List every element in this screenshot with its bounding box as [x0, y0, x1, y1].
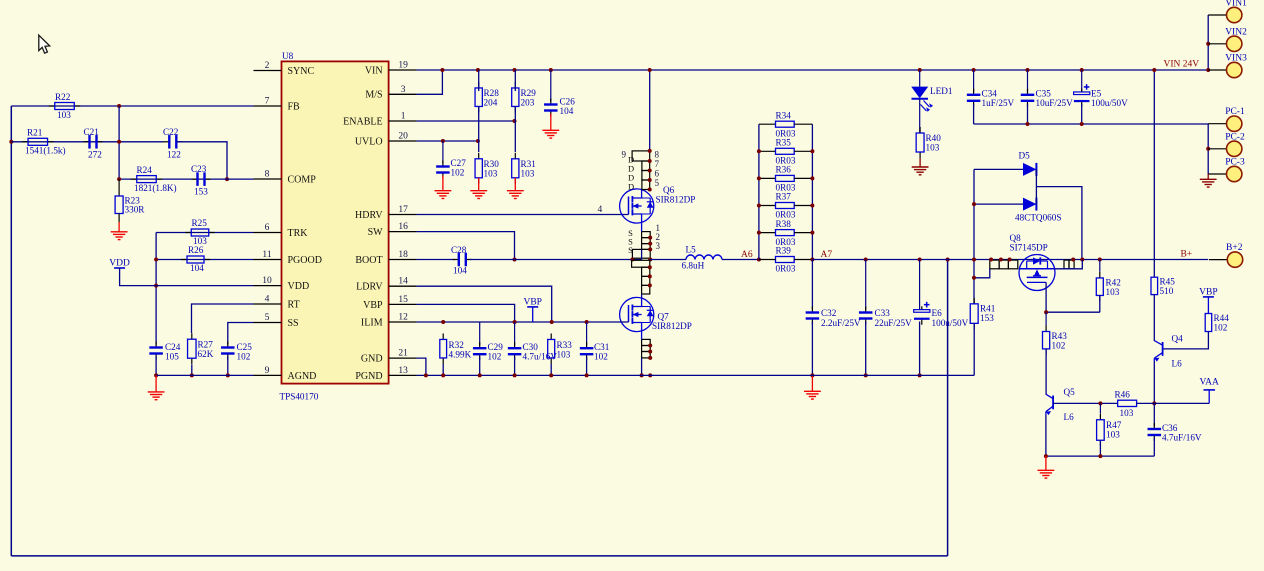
svg-text:TPS40170: TPS40170: [280, 392, 319, 402]
svg-text:104: 104: [560, 106, 574, 116]
capacitor C36: [1153, 423, 1155, 429]
svg-text:R31: R31: [521, 159, 537, 169]
node junction rail PGOOD: [154, 258, 158, 262]
wire R28 to R30 column: [478, 107, 480, 153]
capacitor C28: [453, 259, 459, 261]
svg-text:4.99K: 4.99K: [449, 350, 472, 360]
node junction D5 anodes: [972, 202, 976, 206]
svg-text:2.2uF/25V: 2.2uF/25V: [821, 318, 861, 328]
svg-text:19: 19: [398, 61, 408, 71]
capacitor C35: [1027, 70, 1029, 92]
capacitor C34: [973, 70, 975, 92]
svg-text:9: 9: [265, 366, 270, 376]
pin 16 SW of U8: [389, 231, 417, 233]
svg-text:122: 122: [167, 150, 181, 160]
pin 11 PGOOD of U8: [254, 259, 282, 261]
ground below R30: [478, 178, 480, 191]
node junction PGND R33: [549, 373, 553, 377]
wire Q7 source to PGND: [641, 332, 643, 340]
wire analog ground rail: [1046, 455, 1154, 457]
wire VIN rail: [417, 69, 1209, 71]
svg-text:R35: R35: [776, 138, 792, 148]
svg-text:7: 7: [265, 97, 270, 107]
pin 12 ILIM of U8: [389, 321, 417, 323]
svg-text:R29: R29: [521, 88, 537, 98]
node junction ILIM VBP C30: [513, 320, 517, 324]
wire ILIM row to Q7 gate: [417, 321, 629, 323]
node junction FB divider: [117, 104, 121, 108]
svg-text:PC-3: PC-3: [1225, 158, 1245, 168]
svg-text:R39: R39: [776, 246, 792, 256]
Q6 source pad 3: [642, 244, 651, 250]
resistor R35 shunt 0R03: [759, 150, 776, 152]
node junction R38 rails: [757, 231, 761, 235]
wire Q8 gate down: [1045, 282, 1047, 312]
resistor R38 shunt 0R03: [759, 232, 776, 234]
svg-text:PGND: PGND: [355, 371, 382, 382]
svg-text:6: 6: [655, 169, 660, 179]
svg-text:AGND: AGND: [288, 371, 317, 382]
wire LDRV drop: [417, 286, 552, 322]
node junction PGND C32: [810, 373, 814, 377]
wire AGND row: [156, 374, 253, 376]
svg-text:SIR812DP: SIR812DP: [652, 321, 692, 331]
wire R29 to R31 column: [514, 107, 516, 153]
svg-text:5: 5: [265, 313, 270, 323]
svg-text:4.7u/16V: 4.7u/16V: [523, 352, 558, 362]
transistor Q5: [1052, 396, 1054, 410]
svg-text:R25: R25: [192, 218, 208, 228]
svg-text:R42: R42: [1106, 278, 1122, 288]
Q6 drain pad 5: [642, 180, 650, 190]
wire D5 anode vertical: [973, 169, 975, 304]
wire E5 to cap rail: [1081, 104, 1083, 124]
node junction ILIM R32: [441, 320, 445, 324]
svg-text:1uF/25V: 1uF/25V: [982, 98, 1015, 108]
node junction PGND C30: [513, 373, 517, 377]
Q7 source pad 3: [642, 352, 651, 358]
wire M/S to VIN: [417, 70, 443, 94]
svg-text:4.7uF/16V: 4.7uF/16V: [1162, 433, 1202, 443]
svg-text:D: D: [628, 182, 634, 192]
svg-text:2: 2: [265, 61, 270, 71]
wire Q8 left pad link: [974, 269, 990, 278]
wire PC connector rail: [1207, 124, 1209, 174]
wire Q7 drain tab: [632, 260, 650, 267]
capacitor C29: [479, 322, 481, 345]
wire feedback loop right vertical: [947, 260, 949, 556]
wire GND pin21 drop: [417, 358, 426, 375]
wire D5 cathode to Q8 source: [1036, 187, 1082, 260]
resistor R37 shunt 0R03: [759, 205, 776, 207]
svg-text:C22: C22: [163, 127, 179, 137]
svg-text:VIN1: VIN1: [1225, 0, 1247, 9]
resistor R26: [181, 259, 187, 261]
svg-text:M/S: M/S: [365, 90, 382, 101]
ground below PC-3 dark: [1207, 174, 1209, 179]
pin 7 FB of U8: [254, 105, 282, 107]
svg-text:VIN2: VIN2: [1225, 27, 1247, 37]
svg-text:R30: R30: [484, 159, 500, 169]
Q6 source junction dots: [648, 236, 652, 240]
svg-text:Q7: Q7: [658, 312, 670, 322]
node junction C35 VIN: [1026, 68, 1030, 72]
svg-text:E5: E5: [1091, 89, 1102, 99]
svg-text:SW: SW: [368, 227, 384, 238]
svg-text:PGOOD: PGOOD: [288, 255, 322, 266]
svg-text:R21: R21: [27, 128, 43, 138]
svg-text:L5: L5: [686, 244, 697, 254]
capacitor C25: [227, 342, 229, 348]
svg-text:102: 102: [1052, 341, 1066, 351]
wire Q7 drain pads to symbol: [641, 294, 643, 298]
wire VIN connector rail: [1207, 15, 1209, 70]
wire FB row: [11, 105, 253, 107]
resistor R21: [22, 141, 28, 143]
pin 14 LDRV of U8: [389, 285, 417, 287]
wire C34 to cap rail: [973, 104, 975, 124]
svg-text:VIN3: VIN3: [1225, 54, 1247, 64]
wire C25 to AGND: [227, 357, 229, 376]
node junction VAA row R45 column: [1152, 401, 1156, 405]
wire UVLO row: [417, 140, 478, 142]
node junction M/S VIN: [440, 68, 444, 72]
svg-text:GND: GND: [361, 354, 383, 365]
connector PC-1: [1208, 123, 1226, 125]
svg-text:R47: R47: [1106, 420, 1122, 430]
svg-text:6: 6: [265, 223, 270, 233]
node junction PGND pin21: [424, 373, 428, 377]
node junction C33 rail: [864, 258, 868, 262]
wire R33 to PGND: [550, 364, 552, 375]
svg-text:14: 14: [398, 277, 408, 287]
diode D5 top half: [974, 168, 1023, 170]
svg-text:VBP: VBP: [1199, 287, 1217, 297]
node junction R28 VIN: [476, 68, 480, 72]
wire Q8 right pad link: [1055, 260, 1082, 269]
wire R45 to Q4 collector: [1153, 295, 1155, 341]
svg-text:SS: SS: [288, 318, 299, 329]
node junction gate R43: [1044, 310, 1048, 314]
wire shunt left rail: [758, 124, 760, 259]
node junction ground rail Q5: [1044, 454, 1048, 458]
wire output rail A7 to B+2: [812, 259, 1208, 261]
wire R32 to PGND: [442, 364, 444, 375]
wire C30 to PGND: [514, 357, 516, 375]
svg-text:204: 204: [484, 98, 498, 108]
pin 2 SYNC of U8: [254, 70, 282, 72]
capacitor C30: [514, 322, 516, 345]
svg-text:VBP: VBP: [363, 300, 383, 311]
pin 9 AGND of U8: [254, 374, 282, 376]
svg-text:7: 7: [655, 159, 660, 169]
resistor R22: [49, 105, 55, 107]
capacitor E5 electrolytic: [1081, 70, 1083, 92]
wire C22 to COMP corner: [176, 142, 227, 179]
resistor R29: [514, 82, 516, 88]
transistor Q8 SI7145DP mosfet symbol: [1019, 255, 1055, 291]
svg-text:A7: A7: [821, 250, 833, 260]
svg-text:1: 1: [401, 112, 406, 122]
svg-text:RT: RT: [288, 299, 300, 310]
svg-text:0R03: 0R03: [776, 264, 796, 274]
node junction rail VDD: [154, 284, 158, 288]
wire feedback loop left vertical: [10, 106, 12, 556]
node junction PGND Q7: [648, 373, 652, 377]
svg-text:102: 102: [594, 352, 608, 362]
pin 6 TRK of U8: [254, 232, 282, 234]
svg-text:C27: C27: [451, 158, 467, 168]
svg-text:103: 103: [484, 169, 498, 179]
svg-text:C35: C35: [1036, 89, 1052, 99]
svg-text:510: 510: [1160, 286, 1174, 296]
wire ENABLE row: [417, 120, 515, 122]
svg-text:R46: R46: [1115, 390, 1131, 400]
node junction AGND C24: [154, 373, 158, 377]
resistor R41: [973, 303, 975, 306]
svg-text:102: 102: [237, 352, 251, 362]
svg-text:100u/50V: 100u/50V: [1091, 98, 1128, 108]
pin 17 HDRV of U8: [389, 214, 417, 216]
node junction PC-2: [1206, 147, 1210, 151]
Q6 source pad 1: [642, 232, 651, 238]
svg-text:R40: R40: [926, 133, 942, 143]
resistor R34 shunt 0R03: [759, 123, 776, 125]
capacitor C33: [865, 260, 867, 310]
node junction VIN3: [1206, 68, 1210, 72]
resistor R25: [185, 232, 191, 234]
svg-text:UVLO: UVLO: [355, 136, 383, 147]
svg-text:VDD: VDD: [288, 281, 310, 292]
wire R42 to gate node: [1099, 295, 1101, 312]
svg-text:1541(1.5k): 1541(1.5k): [25, 146, 66, 156]
ground below R31: [514, 178, 516, 191]
Q6 drain pad 7: [642, 161, 650, 171]
ground below R40 dark: [919, 158, 921, 167]
resistor R33: [550, 333, 552, 339]
svg-text:VIN: VIN: [365, 65, 383, 76]
svg-text:12: 12: [398, 313, 408, 323]
connector PC-2: [1208, 148, 1226, 150]
resistor R30: [478, 153, 480, 159]
svg-text:R38: R38: [776, 219, 792, 229]
node junction feedback at main rail: [946, 258, 950, 262]
resistor R42: [1099, 260, 1101, 272]
svg-text:C29: C29: [488, 342, 504, 352]
svg-text:C30: C30: [523, 342, 539, 352]
Q6 source pad 2: [642, 238, 651, 244]
wire R29 column upper: [514, 70, 516, 91]
connector PC-3: [1208, 173, 1226, 175]
wire VDD port to rail: [120, 268, 254, 286]
svg-text:R22: R22: [55, 92, 71, 102]
pin 21 GND of U8: [389, 357, 417, 359]
wire shunt right rail: [811, 124, 813, 259]
ground below C27: [442, 176, 444, 191]
svg-text:102: 102: [1214, 323, 1228, 333]
svg-text:C31: C31: [594, 342, 610, 352]
svg-text:62K: 62K: [198, 349, 214, 359]
wire Q6 drain pads to symbol: [641, 189, 643, 191]
node junction R21 row at frame: [9, 140, 13, 144]
connector VIN3: [1208, 69, 1226, 71]
wire C31 to PGND: [586, 357, 588, 375]
wire R21 C21 C22 row: [11, 141, 163, 143]
wire C35 to cap rail: [1027, 104, 1029, 124]
transistor Q6 SIR812DP mosfet symbol: [620, 189, 654, 223]
svg-text:R26: R26: [188, 245, 204, 255]
wire E6 to PGND: [919, 322, 921, 376]
wire VIN to R45 vertical: [1153, 70, 1155, 277]
capacitor C31: [586, 322, 588, 345]
node junction UVLO R28: [476, 139, 480, 143]
wire Q6 source to SW node: [641, 223, 643, 232]
node junction ILIM C31: [585, 320, 589, 324]
node junction PGND E6: [918, 373, 922, 377]
svg-text:102: 102: [488, 352, 502, 362]
capacitor C22: [163, 141, 169, 143]
svg-text:FB: FB: [288, 101, 301, 112]
svg-text:103: 103: [1106, 430, 1120, 440]
svg-text:102: 102: [451, 168, 465, 178]
LED LED1: [919, 70, 921, 87]
node junction AGND C25: [226, 373, 230, 377]
wire C36 column: [1153, 403, 1155, 426]
wire R47 to ground rail: [1099, 440, 1101, 456]
wire FB to compensation vertical: [118, 106, 120, 179]
svg-text:104: 104: [190, 263, 204, 273]
svg-text:ENABLE: ENABLE: [343, 116, 382, 127]
wire R44 to Q4 base: [1163, 332, 1209, 349]
svg-text:C26: C26: [560, 97, 576, 107]
wire feedback loop bottom horizontal: [11, 555, 947, 557]
svg-text:1821(1.8K): 1821(1.8K): [134, 183, 177, 193]
svg-text:LDRV: LDRV: [356, 282, 383, 293]
svg-text:PC-2: PC-2: [1225, 132, 1245, 142]
capacitor C21: [84, 141, 90, 143]
svg-text:153: 153: [194, 187, 208, 197]
svg-text:16: 16: [398, 222, 408, 232]
svg-text:103: 103: [521, 169, 535, 179]
svg-text:8: 8: [265, 170, 270, 180]
pin 20 UVLO of U8: [389, 140, 417, 142]
svg-text:R43: R43: [1052, 331, 1068, 341]
svg-text:C36: C36: [1162, 423, 1178, 433]
svg-text:R34: R34: [776, 110, 792, 120]
wire R27 to AGND: [191, 365, 193, 376]
wire VIN to Q6 drain pads: [649, 70, 651, 151]
resistor R46: [1118, 400, 1137, 406]
pin 1 ENABLE of U8: [389, 120, 417, 122]
node junction R36 rails: [757, 176, 761, 180]
node junction COMP net: [225, 177, 229, 181]
node junction ground rail R47: [1098, 454, 1102, 458]
svg-text:R33: R33: [557, 340, 573, 350]
svg-text:PC-1: PC-1: [1225, 107, 1245, 117]
svg-text:SI7145DP: SI7145DP: [1010, 243, 1048, 253]
wire BOOT row: [417, 259, 455, 261]
wire Q4 emitter down: [1153, 362, 1155, 404]
svg-text:R36: R36: [776, 165, 792, 175]
svg-text:C21: C21: [84, 127, 100, 137]
node junction ILIM R33 LDRV: [550, 320, 554, 324]
svg-text:BOOT: BOOT: [355, 255, 382, 266]
op-amp U8 TPS40170 controller body: [282, 61, 389, 383]
node junction cap rail E5: [1080, 122, 1084, 126]
wire BOOT row right of C28: [470, 259, 642, 261]
node junction SW BOOT: [513, 258, 517, 262]
Q7 source pad 1: [642, 339, 651, 345]
svg-text:C23: C23: [191, 164, 207, 174]
ground below Q5 rail: [1045, 456, 1047, 470]
svg-text:B+: B+: [1181, 250, 1193, 260]
svg-text:6.8uH: 6.8uH: [682, 260, 705, 270]
resistor R45: [1151, 277, 1158, 294]
svg-text:C33: C33: [875, 308, 891, 318]
resistor R39 shunt inline: [776, 257, 795, 263]
diode D5 bottom half: [974, 203, 1023, 205]
wire C36 to ground rail: [1153, 438, 1155, 456]
wire COMP row: [119, 178, 253, 180]
wire C32 to PGND: [811, 322, 813, 376]
svg-text:SIR812DP: SIR812DP: [656, 195, 696, 205]
svg-text:VIN 24V: VIN 24V: [1164, 60, 1200, 70]
wire R46 to VAA node: [1137, 402, 1210, 404]
svg-text:C24: C24: [165, 342, 181, 352]
node junction VIN2: [1206, 42, 1210, 46]
ground below AGND rail: [155, 375, 157, 392]
node junction PGND C33: [864, 373, 868, 377]
wire R41 to PGND rail: [973, 323, 975, 375]
pin 19 VIN of U8: [389, 69, 417, 71]
wire cap bottom rail to PC-1: [974, 123, 1209, 125]
wire L5 to A6: [722, 259, 759, 261]
wire R28 column upper: [478, 70, 480, 91]
ground below C32: [811, 375, 813, 391]
svg-text:SYNC: SYNC: [288, 66, 315, 77]
resistor R44: [1205, 314, 1212, 332]
Q7 drain pad c: [642, 285, 650, 294]
node junction R29 VIN: [513, 68, 517, 72]
node junction UVLO C27: [441, 139, 445, 143]
svg-text:103: 103: [1120, 408, 1134, 418]
node junction cap rail C35: [1026, 122, 1030, 126]
connector VIN2: [1208, 43, 1226, 45]
Q7 drain junction dots: [648, 265, 652, 269]
node junction PGND C31: [585, 373, 589, 377]
svg-text:18: 18: [398, 250, 408, 260]
svg-text:Q5: Q5: [1064, 387, 1076, 397]
transistor Q4: [1162, 342, 1164, 356]
svg-text:11: 11: [262, 250, 271, 260]
wire R43 to Q5 collector: [1045, 349, 1047, 395]
svg-text:TRK: TRK: [288, 228, 309, 239]
svg-text:R32: R32: [449, 340, 465, 350]
pin 15 VBP of U8: [389, 303, 417, 305]
svg-text:10: 10: [262, 276, 272, 286]
svg-text:C32: C32: [821, 308, 837, 318]
pin 13 PGND of U8: [389, 374, 417, 376]
svg-text:B+2: B+2: [1226, 243, 1243, 253]
resistor R47: [1099, 403, 1101, 413]
node junction R35 rails: [757, 149, 761, 153]
wire C33 to PGND: [865, 322, 867, 376]
svg-text:S: S: [628, 245, 633, 255]
wire VBP pin row: [417, 304, 515, 322]
resistor R43: [1045, 312, 1047, 325]
svg-text:103: 103: [57, 110, 71, 120]
svg-text:HDRV: HDRV: [355, 210, 383, 221]
